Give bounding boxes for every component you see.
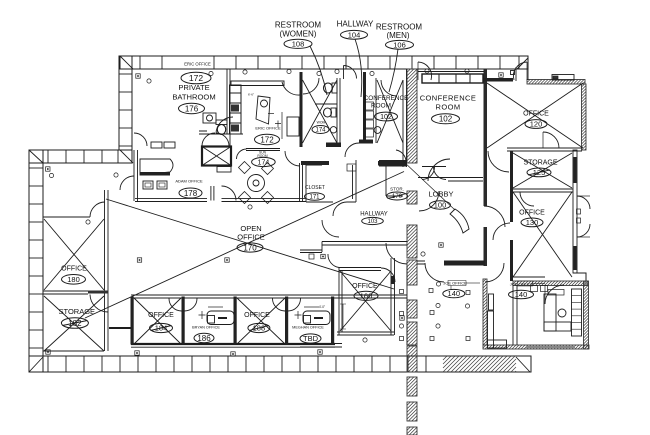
wall office160 left (339, 268, 342, 336)
door hall103 strip (419, 191, 439, 211)
svg-text:OFFICE: OFFICE (523, 111, 549, 118)
svg-text:CLOSET: CLOSET (305, 185, 325, 191)
wall 140R bottom (483, 345, 589, 349)
door corridor north (488, 151, 509, 172)
door hall103 W (322, 220, 339, 237)
desk adam (140, 159, 173, 176)
door conf big (428, 159, 450, 181)
label oval 188 (248, 323, 270, 332)
cabinet 140R (572, 289, 582, 336)
door 140R (545, 285, 564, 304)
wall office180 top (43, 216, 90, 218)
label 172a (181, 72, 211, 84)
door restrooms S2 (345, 143, 359, 157)
wall 140R bottom gray (526, 346, 575, 348)
svg-text:186: 186 (197, 334, 211, 343)
wall stor top thick (379, 160, 407, 167)
door bath2 (134, 133, 147, 146)
wall womens/hall v (337, 78, 340, 143)
wall black seg B (378, 161, 407, 166)
door 140L a (425, 263, 444, 282)
toilet womens 2 (324, 108, 337, 117)
wall bathroom right v (227, 69, 230, 134)
chair adam1 (143, 181, 153, 189)
bookcase 172 (287, 117, 299, 136)
label oval 186 (194, 333, 214, 342)
svg-text:(MEN): (MEN) (386, 31, 409, 40)
desk 186 (199, 307, 235, 325)
door office tbd (288, 299, 301, 312)
wall sunroom right (300, 163, 303, 201)
symbols mid (46, 243, 443, 356)
leader 108 (310, 46, 327, 95)
door office186 (185, 299, 198, 312)
wall right band B (573, 150, 577, 273)
label oval 174w (312, 126, 329, 134)
wall bottom band (29, 356, 531, 372)
wall row bottom (131, 343, 335, 345)
shelf adam2 (164, 142, 175, 148)
door under178 arc (222, 186, 237, 201)
door office180 top (90, 202, 105, 217)
wall 140L top (444, 261, 485, 266)
svg-text:180: 180 (67, 275, 80, 284)
svg-text:HALLWAY: HALLWAY (337, 20, 374, 29)
door under178 leaf (211, 186, 214, 201)
leader 106 (389, 49, 398, 92)
monitor 140R (548, 290, 564, 296)
wall left band upper (119, 56, 132, 150)
sink womens (330, 127, 336, 133)
door wing NE (120, 176, 134, 190)
label oval 104 (341, 30, 368, 39)
label oval 180 (62, 275, 86, 285)
door storage182 (90, 295, 108, 313)
wall SE jog (573, 273, 586, 281)
svg-text:OFFICE: OFFICE (61, 266, 87, 273)
svg-text:ROOM: ROOM (436, 103, 461, 112)
chair NE (262, 163, 274, 175)
wall womens left thick (300, 72, 303, 147)
svg-text:4'-0": 4'-0" (319, 305, 325, 309)
label oval 102b (432, 114, 460, 124)
table round (248, 175, 265, 192)
door small conf (381, 80, 397, 96)
svg-text:102: 102 (380, 114, 392, 121)
door stor S (396, 150, 406, 162)
label oval 120 (525, 120, 547, 129)
wall office120 bottom (507, 148, 582, 151)
desk eric (248, 93, 270, 125)
wall bottom band hatch (443, 356, 516, 372)
svg-text:OFFICE: OFFICE (244, 312, 270, 319)
X office 130 (513, 192, 572, 277)
symbols wing (46, 167, 119, 178)
svg-text:PRIVATE: PRIVATE (178, 83, 209, 92)
door bathroom176 (216, 117, 233, 134)
svg-text:ADAM OFFICE: ADAM OFFICE (175, 179, 203, 184)
bench lobby (450, 209, 469, 233)
label oval 125 (527, 168, 551, 177)
svg-text:OFFICE: OFFICE (148, 312, 174, 319)
svg-text:BATHROOM: BATHROOM (172, 93, 215, 102)
wall corner NW (120, 56, 133, 69)
door sunroom W (237, 149, 247, 159)
wall hallway103 bottom (300, 242, 407, 253)
svg-text:120: 120 (530, 120, 543, 129)
wall 140L right thick (483, 279, 487, 345)
door shaft double (202, 133, 215, 146)
svg-text:STORAGE: STORAGE (59, 307, 96, 316)
toilet womens 1 (324, 83, 338, 93)
label oval 130 (521, 218, 543, 227)
symbols open office (86, 205, 325, 262)
wall lobby top black (484, 78, 513, 82)
wall stor left (386, 166, 403, 196)
door hallway104 (343, 66, 345, 80)
label oval 140a (443, 289, 465, 297)
wall top band (120, 56, 528, 69)
X womens restroom (303, 80, 338, 143)
svg-text:103: 103 (367, 219, 378, 225)
label oval 103 (362, 217, 384, 224)
svg-text:172: 172 (189, 73, 203, 83)
X office 120 (487, 83, 583, 148)
desk 140R (544, 294, 571, 331)
svg-text:104: 104 (348, 30, 361, 39)
door office188 (273, 299, 286, 312)
label oval TBD (300, 334, 321, 343)
wall 140R top (513, 281, 588, 286)
cabinet tall 172 (230, 85, 242, 134)
door office120 (543, 132, 559, 148)
svg-text:CONFERENCE: CONFERENCE (420, 94, 477, 103)
wall restroom bottom L1 (326, 143, 341, 148)
chase shelves (364, 102, 374, 137)
svg-text:STORAGE: STORAGE (523, 160, 557, 167)
label oval 170 (237, 243, 263, 252)
label oval 108 (284, 39, 312, 48)
svg-text:170: 170 (243, 243, 257, 252)
chair adam2 (157, 181, 167, 189)
door jamb blocks right (577, 209, 581, 214)
wall 186/188 (234, 297, 237, 345)
door entry 2 (513, 62, 527, 80)
wall mens chase v (375, 78, 377, 143)
door exterior right 1 (577, 196, 590, 209)
sink bathroom (203, 113, 216, 123)
X office 184 (134, 298, 181, 344)
wall office160 top (339, 268, 381, 271)
wall row top (131, 295, 407, 298)
svg-text:102: 102 (439, 115, 453, 124)
svg-text:100: 100 (434, 201, 447, 210)
svg-text:OFFICE: OFFICE (519, 210, 545, 217)
wall 178 left v (134, 150, 138, 201)
credenza conference (422, 74, 483, 83)
wall 140R right (584, 281, 589, 349)
door hall103 E (386, 243, 407, 264)
svg-text:ERIC OFFICE: ERIC OFFICE (255, 126, 281, 131)
svg-text:174: 174 (315, 128, 326, 134)
label oval 106 (386, 40, 414, 49)
wall wing bottom inner (43, 350, 104, 352)
wall right band A (582, 84, 587, 150)
svg-text:160: 160 (360, 291, 373, 300)
svg-text:TBD: TBD (303, 334, 319, 343)
door restrooms S1 (285, 151, 300, 166)
wall small conf right (403, 69, 407, 167)
wall restroom bottom L2 (359, 140, 373, 144)
door 140L b (485, 263, 504, 282)
svg-text:ERIC OFFICE: ERIC OFFICE (184, 62, 211, 67)
wall wing top band (29, 150, 132, 163)
window bump NE (552, 75, 574, 81)
X office 180 (44, 219, 104, 290)
wall lobby right thick (510, 151, 513, 222)
svg-text:178: 178 (184, 189, 198, 198)
label oval 171 (305, 193, 325, 201)
wall hall/mens thick (363, 72, 366, 143)
wall conf big top (418, 71, 484, 73)
door office160 (381, 268, 395, 282)
wall 178/table v (229, 134, 231, 147)
wall office130 bottom (513, 276, 545, 278)
svg-text:BRYAN OFFICE: BRYAN OFFICE (192, 326, 220, 330)
wall 184 left (131, 297, 134, 345)
X open office (85, 172, 404, 319)
wall hatched strip column (407, 69, 417, 435)
chair NW (239, 162, 251, 174)
sink mens (374, 127, 381, 134)
label oval 140b (509, 290, 534, 298)
label oval 160 (354, 291, 378, 300)
wall under 178 (135, 198, 306, 201)
X office 160 (340, 271, 391, 331)
svg-text:130: 130 (526, 218, 539, 227)
door entry 1 (418, 62, 432, 80)
door office184 (169, 299, 182, 312)
symbols 140L grid (399, 282, 470, 341)
svg-text:ROOM: ROOM (371, 103, 391, 110)
svg-text:140: 140 (515, 290, 528, 299)
svg-text:JOE OFFICE: JOE OFFICE (443, 281, 467, 286)
X storage 182 (44, 296, 104, 351)
svg-text:171: 171 (309, 195, 320, 201)
wall conf big bottom (418, 178, 483, 182)
wall 184/186 (182, 297, 185, 345)
wall office160 bottom (300, 332, 394, 347)
X office 188 (237, 298, 285, 344)
wall black seg A (301, 161, 329, 165)
door closet171 (333, 202, 347, 216)
label oval 182 (61, 318, 88, 329)
svg-text:172: 172 (260, 135, 274, 144)
wall NE corner (517, 56, 528, 80)
wall sunroom top (246, 149, 280, 151)
wall stub wing-row (109, 327, 131, 329)
dim ticks tbd (340, 304, 346, 329)
boxes 140R wall (531, 286, 548, 292)
wall tbd right (331, 297, 334, 345)
label oval 100 (430, 201, 451, 209)
wall 188/tbd (285, 297, 288, 345)
partition womens (315, 103, 337, 105)
svg-text:MEGHAN OFFICE: MEGHAN OFFICE (292, 326, 324, 330)
wall wing right v (105, 190, 109, 351)
label oval 172b (255, 134, 280, 144)
wall conf big right thick (484, 69, 488, 206)
leader lobby (403, 161, 455, 210)
wall wing left band (29, 150, 43, 372)
wall office160 right (391, 258, 407, 345)
wall closet 171 (306, 160, 356, 202)
X storage 125 (513, 153, 572, 188)
svg-text:CONFERENCE: CONFERENCE (364, 95, 409, 102)
door lobby double (422, 167, 435, 180)
door lobby west (493, 223, 510, 240)
chair SW (239, 192, 251, 204)
closet shelf (347, 164, 356, 171)
wall right wing top (527, 80, 585, 85)
label oval 184 (150, 323, 173, 332)
toilet bathroom (216, 120, 227, 135)
svg-text:176: 176 (185, 104, 199, 113)
svg-text:140: 140 (448, 289, 461, 298)
dim marks 176 (275, 121, 281, 128)
leader 104 (355, 39, 362, 97)
svg-text:106: 106 (393, 40, 406, 49)
label oval 102s (375, 112, 398, 121)
X small conf (377, 80, 403, 143)
wall bathroom bottom (199, 131, 243, 134)
symbols top row (136, 69, 503, 83)
label oval 174 sun (252, 157, 276, 166)
wall 180/182 (43, 291, 88, 294)
door corridor east (484, 206, 505, 227)
svg-text:6'-6": 6'-6" (248, 93, 254, 97)
label oval 178 (179, 188, 202, 198)
door exterior right 2 (577, 224, 590, 237)
wall 140R left (513, 285, 517, 345)
door storage125 (520, 192, 534, 206)
desk tbd (295, 307, 331, 325)
wall storage125/130 (513, 189, 573, 192)
svg-text:108: 108 (292, 39, 305, 48)
door womens (303, 78, 319, 94)
shaft box (202, 147, 231, 173)
chair SE (262, 192, 274, 204)
svg-text:WOM: WOM (317, 121, 326, 125)
svg-text:STOR.: STOR. (390, 187, 404, 192)
label oval 176 (179, 103, 205, 113)
shelf adam (151, 142, 162, 148)
svg-text:RESTROOM: RESTROOM (275, 21, 322, 30)
label oval 170s (387, 192, 408, 200)
svg-text:(WOMEN): (WOMEN) (280, 30, 317, 39)
svg-text:HALLWAY: HALLWAY (360, 212, 388, 218)
svg-text:OFFICE: OFFICE (352, 283, 378, 290)
svg-text:OFFICE: OFFICE (237, 233, 265, 242)
counter 140L (488, 294, 507, 348)
